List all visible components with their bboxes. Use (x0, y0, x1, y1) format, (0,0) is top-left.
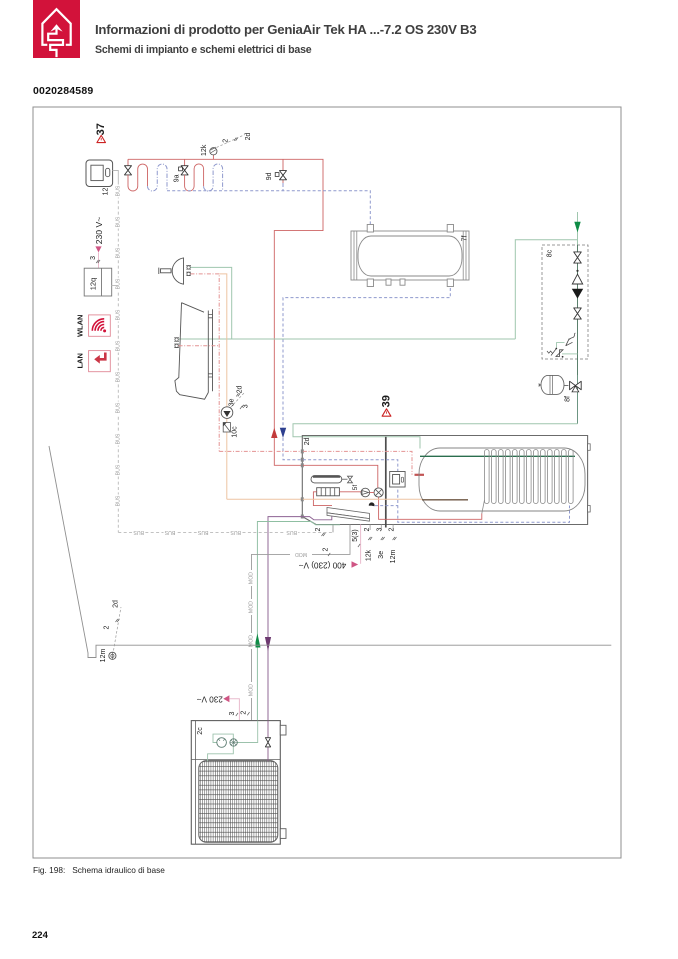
partition line inside unit (385, 437, 387, 528)
wire: thermostat to eBUS (113, 171, 119, 191)
svg-text:2: 2 (222, 139, 229, 143)
expansion vessel (potable) (539, 375, 564, 394)
wire: cold water branch to taps (green) (179, 240, 578, 339)
leader: pump labels 2d / 3e / 3 (229, 386, 250, 410)
room thermostat 12 (86, 160, 113, 195)
leader: label 3 / 3e (377, 525, 386, 559)
heat pump indoor unit (box) (302, 436, 590, 525)
svg-text:2: 2 (104, 626, 111, 630)
subtitle (95, 44, 312, 56)
svg-text:3e: 3e (378, 551, 385, 559)
svg-text:2: 2 (323, 547, 330, 551)
DHW coil (482, 450, 573, 514)
wire: buffer 7f outlet to heat pump (blue dashed) (283, 288, 450, 460)
logo Saunier Duval (33, 0, 80, 58)
buffer cylinder 7f (351, 225, 469, 287)
control panel (390, 472, 405, 488)
node: eBUS drop into unit, label 2 (315, 525, 333, 537)
wire: heater connections (red) (313, 492, 361, 506)
svg-text:3: 3 (90, 256, 97, 260)
building wall line (49, 446, 611, 658)
LAN module (76, 351, 111, 372)
wire: MOD bus between units (gray) (248, 525, 351, 721)
circulation pump 10c (221, 407, 238, 438)
flow direction arrow (blue, down) (280, 428, 286, 438)
bathtub (174, 303, 212, 400)
svg-text:12m: 12m (100, 649, 107, 663)
svg-text:12k: 12k (366, 549, 373, 561)
svg-text:2: 2 (364, 527, 371, 531)
svg-text:MOD: MOD (295, 551, 307, 557)
leader: label 2 / 12m (389, 525, 398, 564)
wire: cold water mains inlet (green) with arrow (574, 212, 580, 245)
svg-text:BUS: BUS (115, 464, 121, 475)
svg-text:12: 12 (102, 188, 109, 196)
shut-off valve (8c top) (574, 252, 582, 263)
svg-text:8c: 8c (546, 249, 553, 257)
svg-text:230 V~: 230 V~ (196, 694, 222, 703)
svg-text:MOD: MOD (249, 572, 255, 584)
sensor pocket (brown) (422, 499, 468, 501)
wire: DHW circulation (orange) (219, 274, 227, 499)
svg-text:2d: 2d (237, 386, 244, 394)
diverter valve (inside unit) (370, 488, 384, 497)
svg-text:2: 2 (315, 527, 322, 531)
leader: 12k to controller, labels 2 / 2d (217, 133, 252, 148)
refrigerant arrow (green, up) (254, 634, 260, 648)
bypass valve 9d (266, 159, 287, 190)
check valve (8c) (572, 289, 583, 299)
wire: heating return inside unit (blue dashed) (303, 460, 570, 523)
svg-text:LAN: LAN (76, 353, 85, 368)
radiator valve 9a (174, 159, 188, 182)
radiator 2 (red part) (185, 164, 204, 191)
svg-text:10c: 10c (232, 426, 239, 438)
wire: basin hot water (red dash-dot) (191, 274, 220, 452)
wire: eBUS horizontal line to heat pump (118, 528, 333, 536)
svg-text:8f: 8f (565, 396, 572, 402)
radiator 1 (red part) (128, 164, 148, 191)
refrigerant arrow (purple, down) (265, 637, 271, 651)
radiator 2 (blue return part) (204, 164, 223, 191)
wire: heating flow inside unit (red) (303, 465, 378, 488)
wire: circulation inside unit (orange) (303, 498, 422, 500)
expansion vessel (heating) (311, 476, 342, 483)
wiring centre 12q (84, 268, 112, 296)
svg-text:37: 37 (95, 123, 107, 135)
diverter valve 8f (564, 375, 581, 424)
svg-text:3: 3 (377, 527, 384, 531)
outdoor heat exchanger grid (199, 761, 278, 843)
svg-text:BUS: BUS (115, 309, 121, 320)
svg-text:BUS: BUS (164, 529, 175, 535)
svg-text:7f: 7f (462, 236, 469, 242)
strainer/filter (223, 423, 230, 433)
vent valve 5f (342, 476, 359, 490)
wire: refrigerant loop inside outdoor unit (green) (208, 721, 258, 762)
leader: label 2 / 12k (364, 525, 373, 562)
svg-text:BUS: BUS (286, 529, 297, 535)
warning symbol 37 (95, 123, 107, 143)
flow temperature sensor 12k (201, 144, 217, 159)
wire: basin cold water (green) (191, 267, 232, 339)
radiator valve (left radiator) (125, 159, 132, 175)
svg-text:12q: 12q (88, 278, 97, 291)
svg-text:BUS: BUS (115, 402, 121, 413)
svg-text:BUS: BUS (197, 529, 208, 535)
cylinder hot outlet line (dark green) (420, 455, 575, 457)
svg-text:BUS: BUS (115, 185, 121, 196)
svg-text:2d: 2d (245, 133, 252, 141)
outdoor temperature sensor 12m (100, 649, 116, 663)
plate heat exchanger (327, 508, 369, 522)
unit pipe connectors (left edge) (301, 449, 304, 518)
wire: refrigerant liquid line (purple) (268, 516, 332, 720)
wire: circulation line into unit (orange) (227, 498, 303, 500)
leader: 12m labels 2 / 2d (104, 600, 121, 650)
svg-text:12m: 12m (390, 550, 397, 564)
svg-text:WLAN: WLAN (76, 315, 85, 338)
warning symbol 39 (380, 395, 392, 416)
compressor (217, 738, 227, 748)
flow direction arrow (red, up) (271, 428, 277, 438)
svg-text:400 (230) V~: 400 (230) V~ (299, 561, 347, 570)
svg-text:5f: 5f (352, 485, 359, 491)
wire: cold water to DHW cylinder (green) (293, 424, 578, 449)
safety group 8c (dashed box) (542, 245, 588, 359)
wire: bathtub hot water (red dash-dot) (179, 345, 220, 347)
wire: valve to DHW coil (red) (379, 497, 482, 519)
backup electric heater (317, 488, 340, 496)
wire: refrigerant gas line (green) (257, 522, 340, 721)
svg-text:BUS: BUS (115, 371, 121, 382)
svg-text:2d: 2d (113, 600, 120, 608)
heating pump (inside unit) (361, 488, 370, 497)
DHW cylinder (419, 448, 585, 511)
svg-text:230 V~: 230 V~ (94, 217, 104, 244)
svg-text:MOD: MOD (249, 601, 255, 613)
diagram border frame (33, 107, 621, 858)
figure caption (33, 865, 165, 875)
expansion valve (outdoor) (265, 720, 270, 761)
svg-text:12k: 12k (201, 144, 208, 156)
wire: heating return line (blue dashed) to buffer 7f (167, 191, 370, 224)
svg-text:9a: 9a (174, 174, 181, 182)
radiator 1 (blue return part) (148, 164, 168, 191)
fan (230, 739, 237, 746)
svg-text:9d: 9d (266, 172, 273, 180)
wire: eBUS vertical line (115, 185, 122, 533)
svg-text:39: 39 (380, 395, 392, 407)
svg-text:2d: 2d (304, 437, 311, 445)
wire: 12q to eBUS (112, 285, 119, 287)
wash basin (159, 258, 191, 284)
svg-text:BUS: BUS (115, 433, 121, 444)
shut-off valve (8c bottom) (574, 308, 582, 319)
svg-text:3: 3 (243, 404, 250, 408)
svg-text:BUS: BUS (115, 247, 121, 258)
svg-text:MOD: MOD (249, 684, 255, 696)
wire: heating flow line (red) (128, 159, 323, 465)
svg-text:5(3): 5(3) (352, 529, 359, 541)
WLAN module (76, 315, 111, 338)
heat pump outdoor unit 2c (191, 721, 286, 845)
power label 230 V~ (wall box) (90, 217, 104, 268)
supply 400(230)V~ label 5(3) (299, 525, 361, 570)
svg-text:BUS: BUS (230, 529, 241, 535)
svg-text:BUS: BUS (115, 278, 121, 289)
wire: line through safety group (577, 245, 579, 375)
svg-text:BUS: BUS (115, 495, 121, 506)
title (95, 22, 476, 37)
sensor symbol on return (369, 502, 375, 506)
svg-text:2: 2 (241, 711, 248, 715)
svg-text:BUS: BUS (115, 340, 121, 351)
page number (32, 930, 48, 941)
pressure relief valve (8c) (547, 333, 578, 358)
svg-text:2c: 2c (197, 727, 204, 735)
wire: DHW hot line into unit (red dash-dot) (219, 450, 303, 452)
svg-text:BUS: BUS (133, 529, 144, 535)
svg-text:3: 3 (229, 711, 236, 715)
svg-text:2: 2 (389, 527, 396, 531)
svg-text:BUS: BUS (115, 216, 121, 227)
power label 230 V~ (outdoor unit) (196, 694, 249, 720)
wire: DHW hot inside unit (red dash-dot) (303, 451, 424, 474)
svg-text:3e: 3e (229, 399, 236, 407)
document number (33, 85, 93, 97)
air vent (8c) (572, 270, 582, 284)
